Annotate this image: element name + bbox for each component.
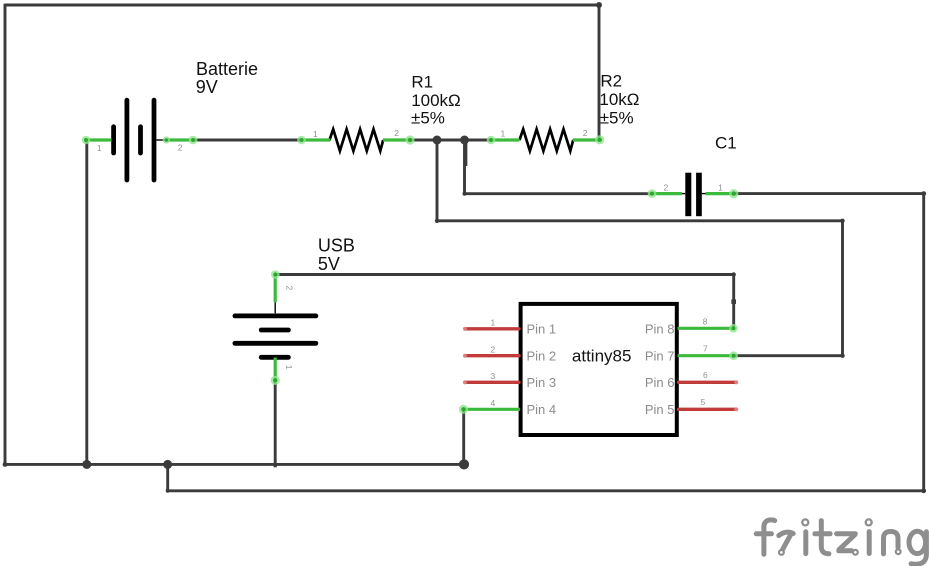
node corner dot at pin7 riser bottom: [840, 354, 844, 358]
node bend square on pin8 riser: [731, 299, 736, 304]
svg-text:5V: 5V: [318, 254, 340, 274]
svg-text:9V: 9V: [196, 77, 218, 97]
battery 9V pin 2 leg: [166, 138, 193, 141]
wire C1 pin1 right, down right side, back to bottom rail: [168, 194, 924, 491]
svg-text:Pin 1: Pin 1: [527, 321, 557, 336]
green pin legs: [86, 140, 734, 409]
svg-text:2: 2: [285, 286, 295, 291]
node junction dot attiny pin4 on ground bus: [459, 459, 469, 469]
svg-text:6: 6: [703, 370, 708, 380]
svg-text:±5%: ±5%: [411, 108, 445, 127]
svg-text:1: 1: [501, 129, 506, 139]
svg-text:Pin 7: Pin 7: [645, 348, 675, 363]
battery BAT1 9V symbol: [114, 100, 154, 180]
resistor R1 pin 1 leg: [302, 138, 331, 141]
svg-text:attiny85: attiny85: [572, 347, 632, 366]
resistor R2 pin 2 leg: [573, 138, 600, 141]
svg-text:5: 5: [701, 397, 706, 407]
attiny85 pin 5 leg: [679, 408, 736, 411]
node junction dot J2 on resistor row: [460, 136, 469, 145]
node corner dot left of pin7 bus: [435, 219, 439, 223]
wire doubled stub below junction B: [464, 140, 467, 166]
attiny85 pin 4 leg: [464, 408, 521, 411]
capacitor C1 pin stubs: [682, 193, 686, 195]
pin number labels: [97, 128, 723, 408]
battery USB pin 2 leg: [274, 273, 277, 302]
wire bottom ground bus: [5, 463, 464, 466]
svg-text:1: 1: [97, 143, 102, 153]
capacitor C1 pin 1 leg: [706, 192, 734, 195]
wire left border vertical: [4, 4, 7, 465]
node bend nub below ground bus at USB pin1: [274, 464, 277, 467]
svg-text:Pin 5: Pin 5: [645, 402, 675, 417]
attiny85 pin 7 leg: [678, 354, 734, 357]
svg-text:Pin 6: Pin 6: [645, 375, 675, 390]
capacitor C1 plates: [685, 173, 691, 217]
red pin terminal tips: [463, 327, 739, 412]
fritzing watermark logo: [756, 520, 926, 564]
node corner dot bottom rail left end: [166, 489, 170, 493]
svg-text:4: 4: [491, 398, 496, 408]
svg-text:3: 3: [491, 371, 496, 381]
svg-text:Pin 4: Pin 4: [527, 402, 557, 417]
node junction dot battery drop on ground bus: [82, 460, 91, 469]
attiny85 pin name labels: [527, 321, 675, 417]
svg-text:Pin 2: Pin 2: [527, 348, 557, 363]
svg-text:2: 2: [178, 142, 183, 152]
wire USB pin2 across top and down to attiny pin8: [275, 275, 733, 329]
battery 9V pin 1 leg: [86, 138, 112, 141]
op-amp attiny85 U1 body: [521, 304, 677, 435]
svg-text:Pin 8: Pin 8: [645, 321, 675, 336]
wire battery pin1 down to ground bus: [85, 140, 88, 464]
battery USB pin 1 leg: [274, 358, 277, 381]
attiny85 pin 6 leg: [679, 381, 736, 384]
wire attiny pin4 down to ground junction: [462, 409, 465, 464]
svg-text:10kΩ: 10kΩ: [599, 90, 639, 109]
fritzing logo hollow pads and dots: [779, 519, 901, 554]
attiny85 pin 8 leg: [678, 327, 734, 330]
node corner dot bottom-right: [921, 488, 926, 493]
wire junction B down to C1 pin2: [465, 140, 653, 194]
battery USB 5V symbol: [235, 316, 316, 357]
svg-text:Batterie: Batterie: [196, 59, 258, 79]
resistor R2 pin 1 leg: [491, 138, 520, 141]
svg-text:8: 8: [703, 317, 708, 327]
node bottom-left corner: [3, 462, 8, 467]
svg-text:2: 2: [583, 128, 588, 138]
node corner dot right of pin7 bus: [840, 219, 844, 223]
svg-text:R2: R2: [600, 71, 622, 90]
resistor R2 zigzag: [520, 129, 574, 151]
node corner dot right of C1: [921, 191, 926, 196]
svg-text:2: 2: [664, 182, 669, 192]
wire battery pin2 to R1 pin1: [193, 139, 302, 142]
svg-text:100kΩ: 100kΩ: [411, 91, 461, 110]
svg-text:Pin 3: Pin 3: [527, 375, 557, 390]
resistor R1 zigzag: [330, 129, 384, 151]
attiny85 pin 2 leg: [466, 354, 519, 357]
attiny85 pin 3 leg: [466, 381, 519, 384]
battery 9V pin2 stub: [156, 139, 167, 141]
resistor R1 pin 2 leg: [383, 138, 410, 141]
wire R1 pin2 to R2 pin1 through junctions: [410, 139, 491, 142]
node top-right corner bend: [596, 2, 602, 8]
battery USB pin2 stub: [274, 302, 276, 313]
svg-text:R1: R1: [411, 73, 433, 92]
red pin legs: [466, 329, 736, 410]
wire top border from battery loop to R2 top: [5, 5, 599, 140]
green terminal halos: [82, 135, 739, 414]
svg-text:C1: C1: [715, 134, 737, 153]
wire junction A down and across to attiny pin7 riser: [437, 140, 843, 356]
svg-text:7: 7: [703, 343, 708, 353]
svg-text:±5%: ±5%: [600, 108, 634, 127]
svg-text:2: 2: [394, 128, 399, 138]
svg-text:1: 1: [313, 129, 318, 139]
wire USB pin1 down to ground bus: [274, 380, 277, 466]
svg-text:1: 1: [284, 365, 294, 370]
svg-text:1: 1: [718, 182, 723, 192]
svg-text:1: 1: [491, 318, 496, 328]
svg-text:2: 2: [491, 345, 496, 355]
capacitor C1 pin 2 leg: [652, 192, 682, 195]
svg-text:USB: USB: [318, 235, 355, 255]
node corner dot above USB pin8 riser: [732, 272, 736, 276]
attiny85 pin 1 leg: [466, 327, 519, 330]
node junction dot J1 on resistor row: [433, 136, 442, 145]
node junction dot bottom rail tap on ground bus: [163, 460, 172, 469]
node corner dot below junction B: [463, 192, 467, 196]
